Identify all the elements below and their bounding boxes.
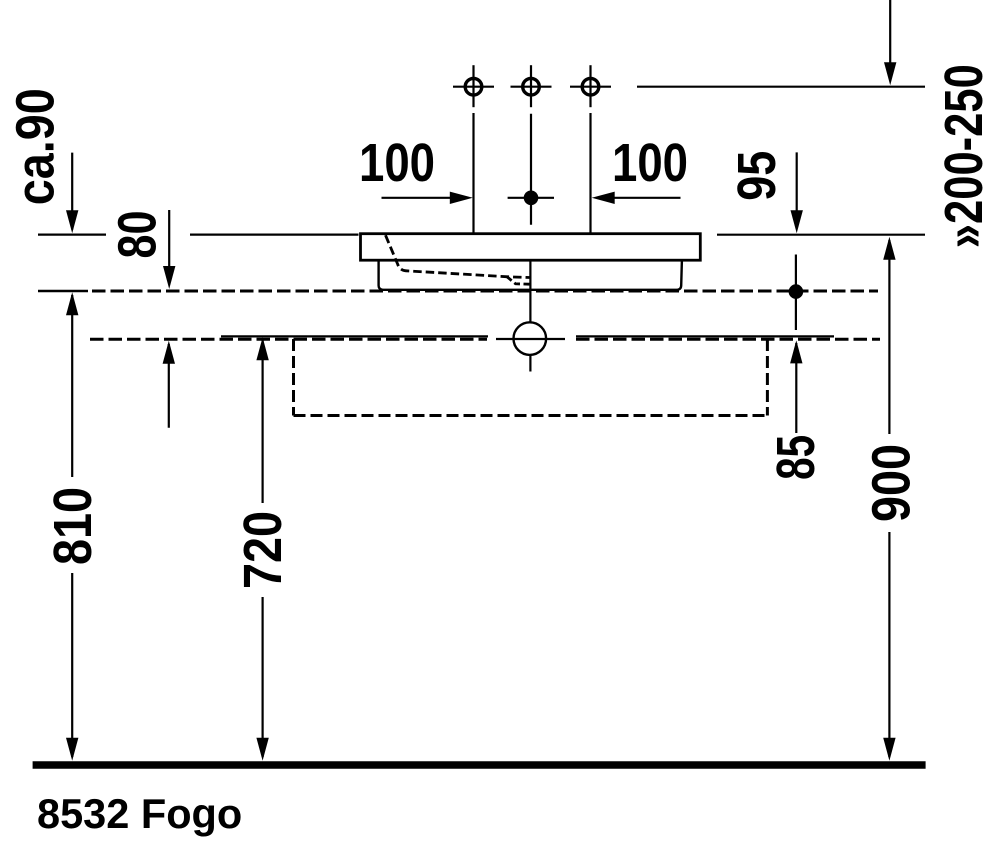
- label 80: [109, 211, 168, 259]
- extension line hole 3: [589, 113, 591, 233]
- reference dot center: [508, 191, 554, 206]
- label 85: [767, 435, 826, 480]
- rim top line right segment: [717, 234, 925, 236]
- solid line countertop bottom: [221, 335, 834, 337]
- dimension ca.90 arrow: [66, 153, 78, 234]
- dashed line wall lower: [90, 338, 880, 341]
- label 900: [863, 444, 922, 522]
- dashed line wall upper: [38, 290, 878, 293]
- svg-text:100: 100: [612, 134, 688, 193]
- faucet reference line top right: [637, 86, 925, 88]
- dimension 720 line: [256, 337, 268, 761]
- svg-text:95: 95: [728, 151, 787, 201]
- washbasin rim rectangle: [361, 234, 701, 261]
- label 810: [44, 487, 103, 565]
- extension line hole 1: [472, 113, 474, 233]
- faucet hole circle 1: [453, 65, 494, 107]
- faucet hole circle 3: [570, 65, 611, 107]
- label 200-250: [935, 64, 994, 248]
- drain circle: [496, 322, 565, 355]
- up arrow countertop thickness: [163, 341, 175, 428]
- floor line: [33, 761, 926, 769]
- dimension 100 right: [592, 192, 681, 204]
- svg-text:»200-250: »200-250: [935, 64, 994, 248]
- rim top line left segments: [38, 234, 359, 236]
- label 95: [728, 151, 787, 201]
- svg-text:85: 85: [767, 435, 826, 480]
- dimension 100 left: [382, 192, 473, 204]
- svg-text:810: 810: [44, 487, 103, 565]
- label 720: [234, 511, 293, 589]
- dimension 85 arrow: [790, 340, 802, 433]
- label ca.90: [7, 88, 66, 205]
- svg-text:8532 Fogo: 8532 Fogo: [37, 790, 242, 837]
- label 100 left: [359, 134, 435, 193]
- dimension 810 line: [66, 292, 78, 761]
- reference dot right: [789, 255, 804, 331]
- arrow stem from top: [884, 0, 896, 85]
- svg-text:720: 720: [234, 511, 293, 589]
- dimension 95 arrow: [791, 152, 803, 233]
- label 8532 Fogo: [37, 790, 242, 837]
- overflow dashed contour: [386, 235, 530, 284]
- svg-text:100: 100: [359, 134, 435, 193]
- svg-text:ca.90: ca.90: [7, 88, 66, 205]
- dimension 900 line: [883, 237, 895, 761]
- svg-text:900: 900: [863, 444, 922, 522]
- faucet hole circle 2: [511, 65, 552, 107]
- center line vertical: [529, 114, 532, 372]
- dimension 80 arrow: [163, 210, 175, 289]
- svg-text:80: 80: [109, 211, 168, 259]
- cabinet dashed outline: [294, 339, 768, 416]
- label 100 right: [612, 134, 688, 193]
- washbasin body: [379, 260, 682, 290]
